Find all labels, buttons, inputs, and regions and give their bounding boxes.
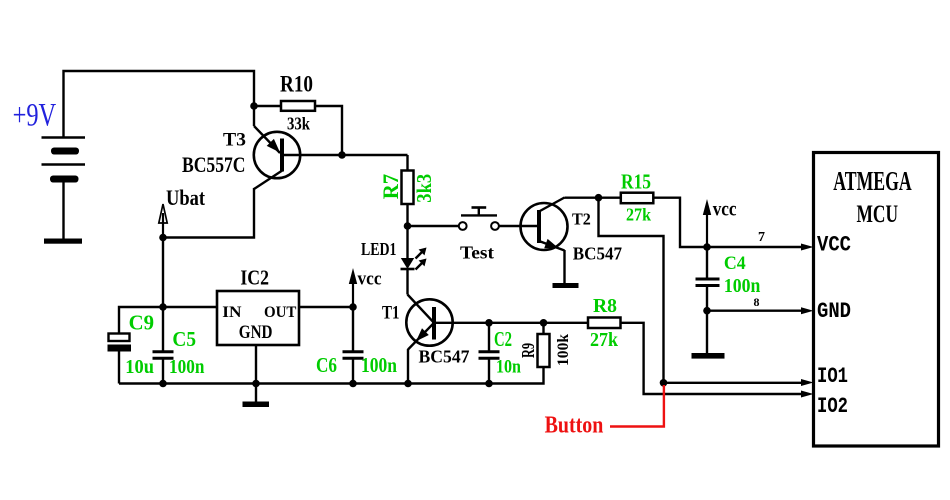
- wire T1 emitter to rail: [407, 349, 409, 384]
- wire to test switch: [408, 225, 459, 227]
- node junction C6 on rail: [349, 380, 357, 388]
- capacitor C4: [696, 247, 720, 353]
- wire red button annotation: [610, 385, 664, 427]
- arrow into IO1 pin: [801, 379, 814, 386]
- wire T2 emitter to ground: [563, 250, 565, 283]
- svg-text:Ubat: Ubat: [166, 185, 206, 210]
- svg-text:R8: R8: [593, 295, 617, 317]
- svg-text:7: 7: [758, 230, 765, 245]
- resistor R9: [538, 323, 550, 367]
- IC2 box: [217, 291, 299, 345]
- svg-text:33k: 33k: [287, 113, 310, 133]
- svg-text:27k: 27k: [590, 329, 619, 351]
- svg-text:10u: 10u: [125, 356, 154, 378]
- svg-text:10n: 10n: [496, 357, 521, 378]
- svg-text:VCC: VCC: [817, 232, 851, 257]
- node junction GND / C4: [703, 307, 711, 315]
- transistor Q T1 BC547: [406, 295, 588, 350]
- svg-text:R9: R9: [518, 343, 538, 358]
- svg-text:T1: T1: [382, 302, 400, 323]
- arrow into IO2 pin: [801, 391, 814, 398]
- node junction IO1 red button tap: [660, 379, 668, 387]
- node junction R15 left / IO1 branch: [595, 194, 603, 202]
- svg-text:IO2: IO2: [817, 394, 848, 419]
- resistor R10: [281, 101, 315, 111]
- svg-text:MCU: MCU: [857, 200, 899, 228]
- wire T2 collector to R15: [565, 196, 621, 198]
- battery B1 +9V: [42, 138, 86, 240]
- svg-text:3k3: 3k3: [412, 174, 436, 203]
- node junction VCC / C4: [703, 243, 711, 251]
- wire top rail from battery to T3 emitter column: [64, 71, 255, 138]
- svg-text:IN: IN: [222, 304, 241, 321]
- svg-text:R7: R7: [378, 174, 403, 200]
- capacitor C2: [479, 323, 500, 384]
- capacitor C5: [153, 307, 174, 384]
- LED LED1: [401, 226, 415, 295]
- node junction IC2 gnd on rail: [252, 380, 260, 388]
- svg-text:R10: R10: [280, 72, 313, 97]
- node junction C5 on rail: [159, 380, 167, 388]
- arrow vcc pointer at C6: [349, 268, 357, 307]
- arrow into GND pin: [801, 307, 814, 314]
- svg-text:T2: T2: [572, 209, 591, 228]
- svg-text:C2: C2: [494, 327, 512, 351]
- node junction C2 top: [485, 319, 493, 327]
- wire IO1 branch down to MCU: [599, 198, 806, 383]
- capacitor C6: [343, 307, 364, 384]
- svg-text:BC557C: BC557C: [182, 152, 246, 177]
- node junction base of T3: [338, 151, 346, 159]
- resistor R8: [588, 318, 621, 329]
- arrow vcc pointer at C4: [703, 199, 711, 247]
- ground under T2: [553, 283, 579, 288]
- svg-text:100k: 100k: [555, 333, 572, 366]
- svg-text:Test: Test: [460, 242, 494, 262]
- node junction T1 emitter on rail: [404, 380, 412, 388]
- wire GND pin from C4: [707, 310, 805, 312]
- svg-text:100n: 100n: [361, 353, 397, 377]
- node junction at R10 left on emitter column: [250, 102, 258, 110]
- svg-text:100n: 100n: [724, 275, 760, 297]
- arrow LED light ray 1: [416, 248, 427, 259]
- ground under C4: [692, 353, 725, 359]
- svg-text:IC2: IC2: [240, 265, 269, 289]
- node junction OUT / C6 / vcc: [349, 303, 357, 311]
- svg-text:C4: C4: [724, 253, 746, 274]
- resistor R15: [621, 193, 654, 204]
- wire R8 right to IO2 pin: [621, 323, 806, 394]
- svg-text:GND: GND: [239, 322, 273, 343]
- wire IC2 GND lead: [255, 345, 257, 402]
- resistor R7: [402, 155, 414, 226]
- svg-text:GND: GND: [817, 299, 851, 324]
- wire R10 left lead: [254, 105, 281, 107]
- svg-text:8: 8: [754, 295, 760, 309]
- arrow into VCC pin: [801, 244, 814, 251]
- arrow Ubat pointer: [159, 204, 167, 238]
- svg-text:OUT: OUT: [264, 304, 297, 321]
- svg-text:LED1: LED1: [361, 239, 397, 259]
- svg-text:100n: 100n: [169, 356, 205, 378]
- svg-text:vcc: vcc: [713, 197, 737, 221]
- wire T3 collector down and left to Ubat node: [163, 188, 254, 307]
- wire R15 right to VCC pin: [653, 198, 805, 247]
- svg-text:R15: R15: [621, 169, 651, 193]
- capacitor C9 electrolytic: [108, 334, 132, 384]
- switch S1 Test: [459, 208, 499, 230]
- transistor Q T3 BC557C: [254, 126, 408, 189]
- svg-text:C6: C6: [316, 353, 337, 377]
- node Ubat junction: [159, 234, 167, 242]
- node junction under R7: [404, 222, 412, 230]
- svg-text:T3: T3: [223, 130, 246, 150]
- node junction R9 top: [540, 319, 548, 327]
- wire R10 right lead down to base node: [315, 106, 342, 155]
- node junction C2 bottom on rail: [485, 380, 493, 388]
- svg-text:BC547: BC547: [573, 243, 622, 263]
- svg-text:C5: C5: [172, 329, 196, 351]
- arrow LED light ray 2: [416, 259, 427, 270]
- wire IN line to IC2 and left branch to C9: [119, 307, 217, 333]
- svg-text:C9: C9: [129, 312, 154, 334]
- MCU box U1 ATMEGA: [814, 153, 939, 447]
- svg-text:ATMEGA: ATMEGA: [833, 166, 911, 197]
- wire switch to T2 base: [499, 225, 521, 227]
- wire bottom ground rail: [119, 367, 544, 384]
- svg-text:IO1: IO1: [817, 364, 848, 389]
- node junction at IC2 IN / C5: [159, 303, 167, 311]
- svg-text:+9V: +9V: [13, 98, 57, 134]
- transistor Q T2 BC547: [521, 198, 568, 251]
- ground under IC2: [243, 402, 270, 408]
- svg-text:27k: 27k: [626, 204, 652, 224]
- ground under battery: [44, 239, 82, 244]
- svg-text:Button: Button: [545, 411, 604, 438]
- svg-text:BC547: BC547: [419, 346, 470, 366]
- svg-text:vcc: vcc: [358, 269, 382, 290]
- wire IC2 OUT to vcc node: [299, 306, 353, 308]
